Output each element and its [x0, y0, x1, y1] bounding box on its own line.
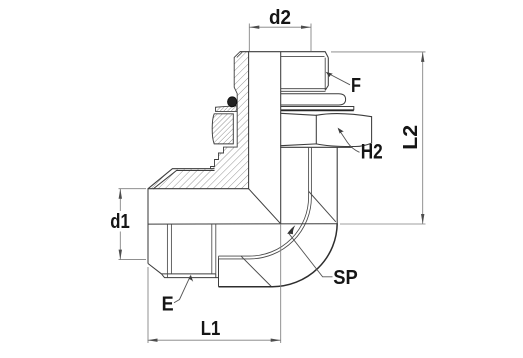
horizontal leg left end face — [147, 189, 149, 264]
lower connector vertical at x=218.5 — [218, 259, 220, 287]
stud right edge — [325, 58, 328, 91]
thread E runout double lines (left) — [167, 224, 171, 278]
svg-text:L2: L2 — [399, 125, 422, 150]
chamfer diagonal D4 (bottom left) — [241, 256, 272, 287]
dimension d2 — [249, 6, 311, 51]
dimension L1 — [148, 224, 281, 343]
o-ring seal washer capsule (right half) — [281, 94, 346, 105]
thread relief lines under stud — [281, 89, 326, 92]
svg-text:E: E — [162, 294, 174, 316]
stud thread minor line (right side vertical) — [324, 58, 326, 91]
sectioned body region (hatched): stud wall + corner block + hex band — [148, 52, 249, 189]
o-ring (black, sectioned) — [228, 97, 237, 107]
vertical leg bore silhouette double lines — [309, 147, 312, 197]
hex top edges (horizontal leg, sectioned upper half) — [148, 169, 214, 189]
bore wall line of horizontal leg (y=188.7) — [148, 188, 249, 190]
stud top face — [240, 52, 328, 58]
dimension d1 — [110, 189, 146, 260]
washer cross-section (left, hatched) — [216, 106, 237, 112]
left end chamfer — [148, 264, 162, 274]
stud thread minor line (top, right half) — [281, 55, 325, 57]
body section outline (left sectioned profile) — [211, 52, 249, 189]
stud top-left inner chamfer line — [237, 52, 242, 57]
svg-text:SP: SP — [333, 266, 358, 289]
svg-text:F: F — [351, 75, 361, 97]
locknut H2 cross-section (left, hatched) — [212, 114, 233, 144]
outer corner arc and bottom line — [219, 223, 338, 287]
thread E runout double lines (right) — [212, 224, 216, 274]
svg-text:d1: d1 — [110, 210, 130, 233]
svg-text:L1: L1 — [201, 317, 221, 340]
retaining plate / washer (right half) — [281, 107, 354, 111]
bore silhouette horizontal double lines — [219, 256, 250, 259]
locknut H2 (right half, exterior) — [281, 113, 372, 147]
horizontal leg half-section boundary line — [148, 223, 337, 225]
inner bore corner arc (double line) — [250, 197, 312, 259]
label F with leader — [326, 72, 361, 97]
thread E bottom lines — [162, 273, 216, 275]
dimension L2 — [331, 52, 426, 224]
label H2 with leader — [338, 128, 383, 164]
vertical leg half-section boundary line — [280, 52, 282, 224]
label SP with leader and hooked arrow — [287, 225, 358, 289]
label E with leader — [162, 275, 194, 316]
vertical leg outer right edge — [336, 147, 338, 223]
transition diagonal D1 (inside corner) — [249, 189, 281, 224]
svg-text:d2: d2 — [269, 6, 291, 29]
chamfer diagonal D3 (top right) — [309, 192, 336, 222]
svg-text:H2: H2 — [361, 141, 383, 164]
